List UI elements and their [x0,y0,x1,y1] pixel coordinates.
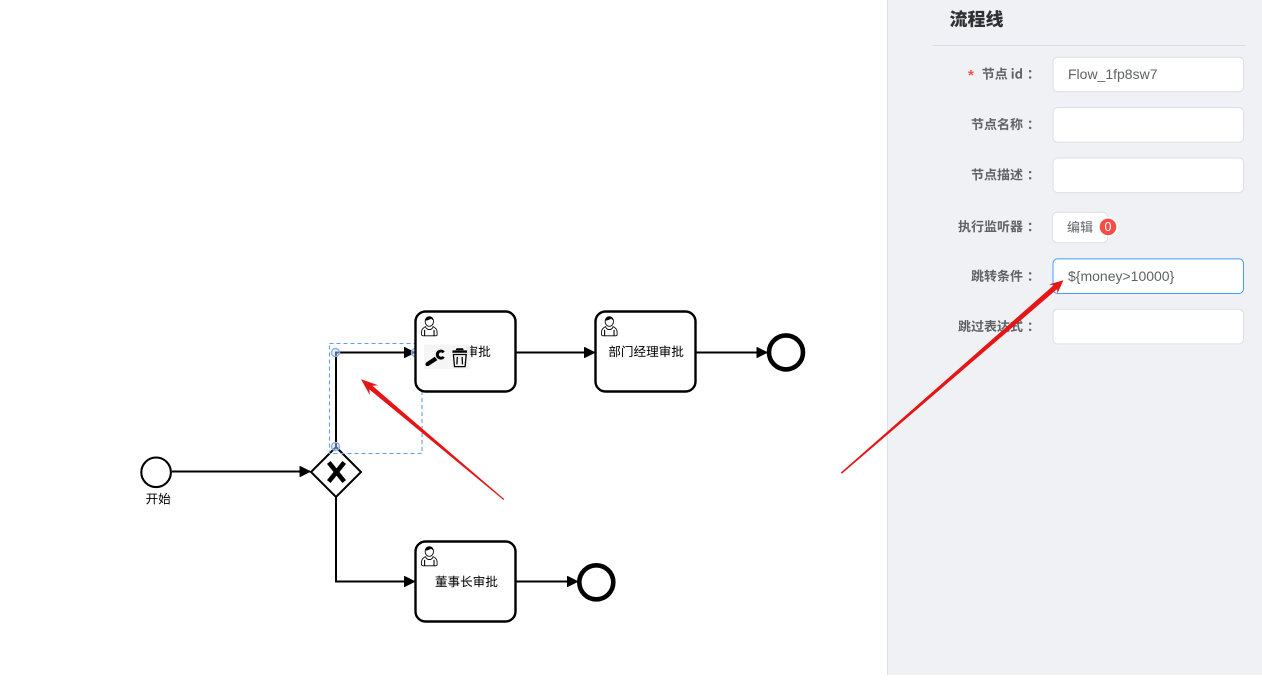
gateway exclusive X [311,447,361,497]
label 节点 id [982,68,1031,80]
task3 user icon [422,547,438,566]
waypoint marker at bend [332,349,340,357]
end event 2 [579,565,613,599]
task1 user icon [422,317,438,336]
wire task3 to end event 2 [516,581,578,583]
properties panel background [888,0,1262,675]
panel left border [887,0,888,675]
red annotation arrow 1 (to selected wire) [361,379,504,500]
wire gateway to task1 (selected) [336,353,415,448]
button 编辑 [1053,212,1108,243]
label 执行监听器 [958,220,1031,232]
svg-text:${money>10000}: ${money>10000} [1068,268,1175,284]
wrench icon [426,350,445,366]
selection dashed box [330,344,423,454]
task2 部门经理审批 box [596,312,696,392]
trash icon [452,348,467,366]
title separator line [933,45,1246,46]
start event label 开始 [146,493,170,505]
wire start to gateway [172,471,310,473]
svg-text:0: 0 [1105,220,1112,234]
input 跳转条件 [1053,259,1244,294]
panel title 流程线 [950,10,1003,27]
badge circle [1099,218,1117,236]
input 节点描述 [1053,158,1244,193]
task3 label 董事长审批 [436,576,498,588]
start event 开始 [141,458,171,488]
end event 1 [769,335,803,369]
svg-text:*: * [968,67,974,84]
label 节点名称 [972,118,1032,130]
waypoint marker at task1 end [412,349,420,357]
task3 董事长审批 box [416,542,516,622]
label 跳转条件 [971,270,1031,282]
input 节点id [1053,57,1244,92]
gateway X marker [329,462,344,481]
input 跳过表达式 [1053,309,1244,344]
task2 label 部门经理审批 [609,345,683,357]
task1 label 审批 (partially covered 4-char label) [467,345,491,357]
svg-text:Flow_1fp8sw7: Flow_1fp8sw7 [1068,66,1158,82]
wire task1 to task2 [516,352,595,354]
wire gateway to task3 [336,497,415,582]
task1 审批 box [416,312,516,392]
label 节点描述 [972,168,1032,180]
label 跳过表达式 [958,320,1031,332]
button label 编辑 [1067,221,1092,233]
tool overlay background [424,345,470,370]
waypoint marker at gateway end [332,443,340,451]
red annotation arrow 2 (to 跳转条件 input) [841,280,1064,474]
wire task2 to end event 1 [696,352,767,354]
task2 user icon [602,317,618,336]
input 节点名称 [1053,108,1244,143]
